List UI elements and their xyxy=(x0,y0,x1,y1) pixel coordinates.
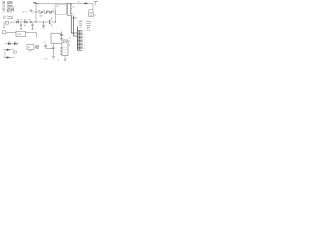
svg-text:C2: C2 xyxy=(22,11,24,13)
svg-text:7: 7 xyxy=(84,39,85,41)
svg-text:K2: K2 xyxy=(69,38,71,40)
svg-text:NE555: NE555 xyxy=(7,12,13,14)
svg-text:12: 12 xyxy=(69,41,71,43)
svg-text:IC1: IC1 xyxy=(56,6,59,8)
svg-text:9VoltBl: 9VoltBl xyxy=(7,17,13,20)
svg-text:S2: S2 xyxy=(37,3,39,5)
svg-text:R7: R7 xyxy=(29,19,31,21)
svg-text:D3: D3 xyxy=(14,41,16,43)
svg-text:by: by xyxy=(69,45,71,47)
svg-text:10k: 10k xyxy=(39,13,42,15)
svg-text:T2: T2 xyxy=(10,23,12,25)
svg-text:4u: 4u xyxy=(24,25,26,27)
svg-text:D6: D6 xyxy=(12,57,14,59)
svg-text:9: 9 xyxy=(84,42,85,44)
svg-text:13: 13 xyxy=(84,48,86,50)
svg-text:R6: R6 xyxy=(24,19,26,21)
svg-text:a: a xyxy=(72,13,73,15)
svg-text:X1: X1 xyxy=(72,7,74,9)
svg-text:7805: 7805 xyxy=(29,50,33,52)
svg-text:+5: +5 xyxy=(79,27,81,29)
svg-text:1k0: 1k0 xyxy=(40,16,43,18)
svg-text:11: 11 xyxy=(84,45,86,47)
svg-text:C6: C6 xyxy=(20,19,22,21)
svg-text:U1: U1 xyxy=(28,47,30,49)
svg-text:5: 5 xyxy=(84,37,85,39)
svg-text:C5: C5 xyxy=(43,42,45,44)
svg-text:4n7: 4n7 xyxy=(44,13,47,15)
svg-text:U2: U2 xyxy=(75,18,77,20)
svg-text:D4: D4 xyxy=(78,2,80,4)
svg-text:22k: 22k xyxy=(49,13,52,15)
svg-text:K1: K1 xyxy=(94,15,96,17)
svg-text:R5: R5 xyxy=(17,19,19,21)
svg-text:B1: B1 xyxy=(3,18,5,20)
svg-text:RE1: RE1 xyxy=(18,34,22,36)
svg-text:D2: D2 xyxy=(8,41,10,43)
svg-text:3: 3 xyxy=(84,34,85,36)
svg-text:rosa: rosa xyxy=(87,29,91,31)
svg-text:1: 1 xyxy=(84,31,85,33)
svg-text:ln: ln xyxy=(26,11,27,13)
